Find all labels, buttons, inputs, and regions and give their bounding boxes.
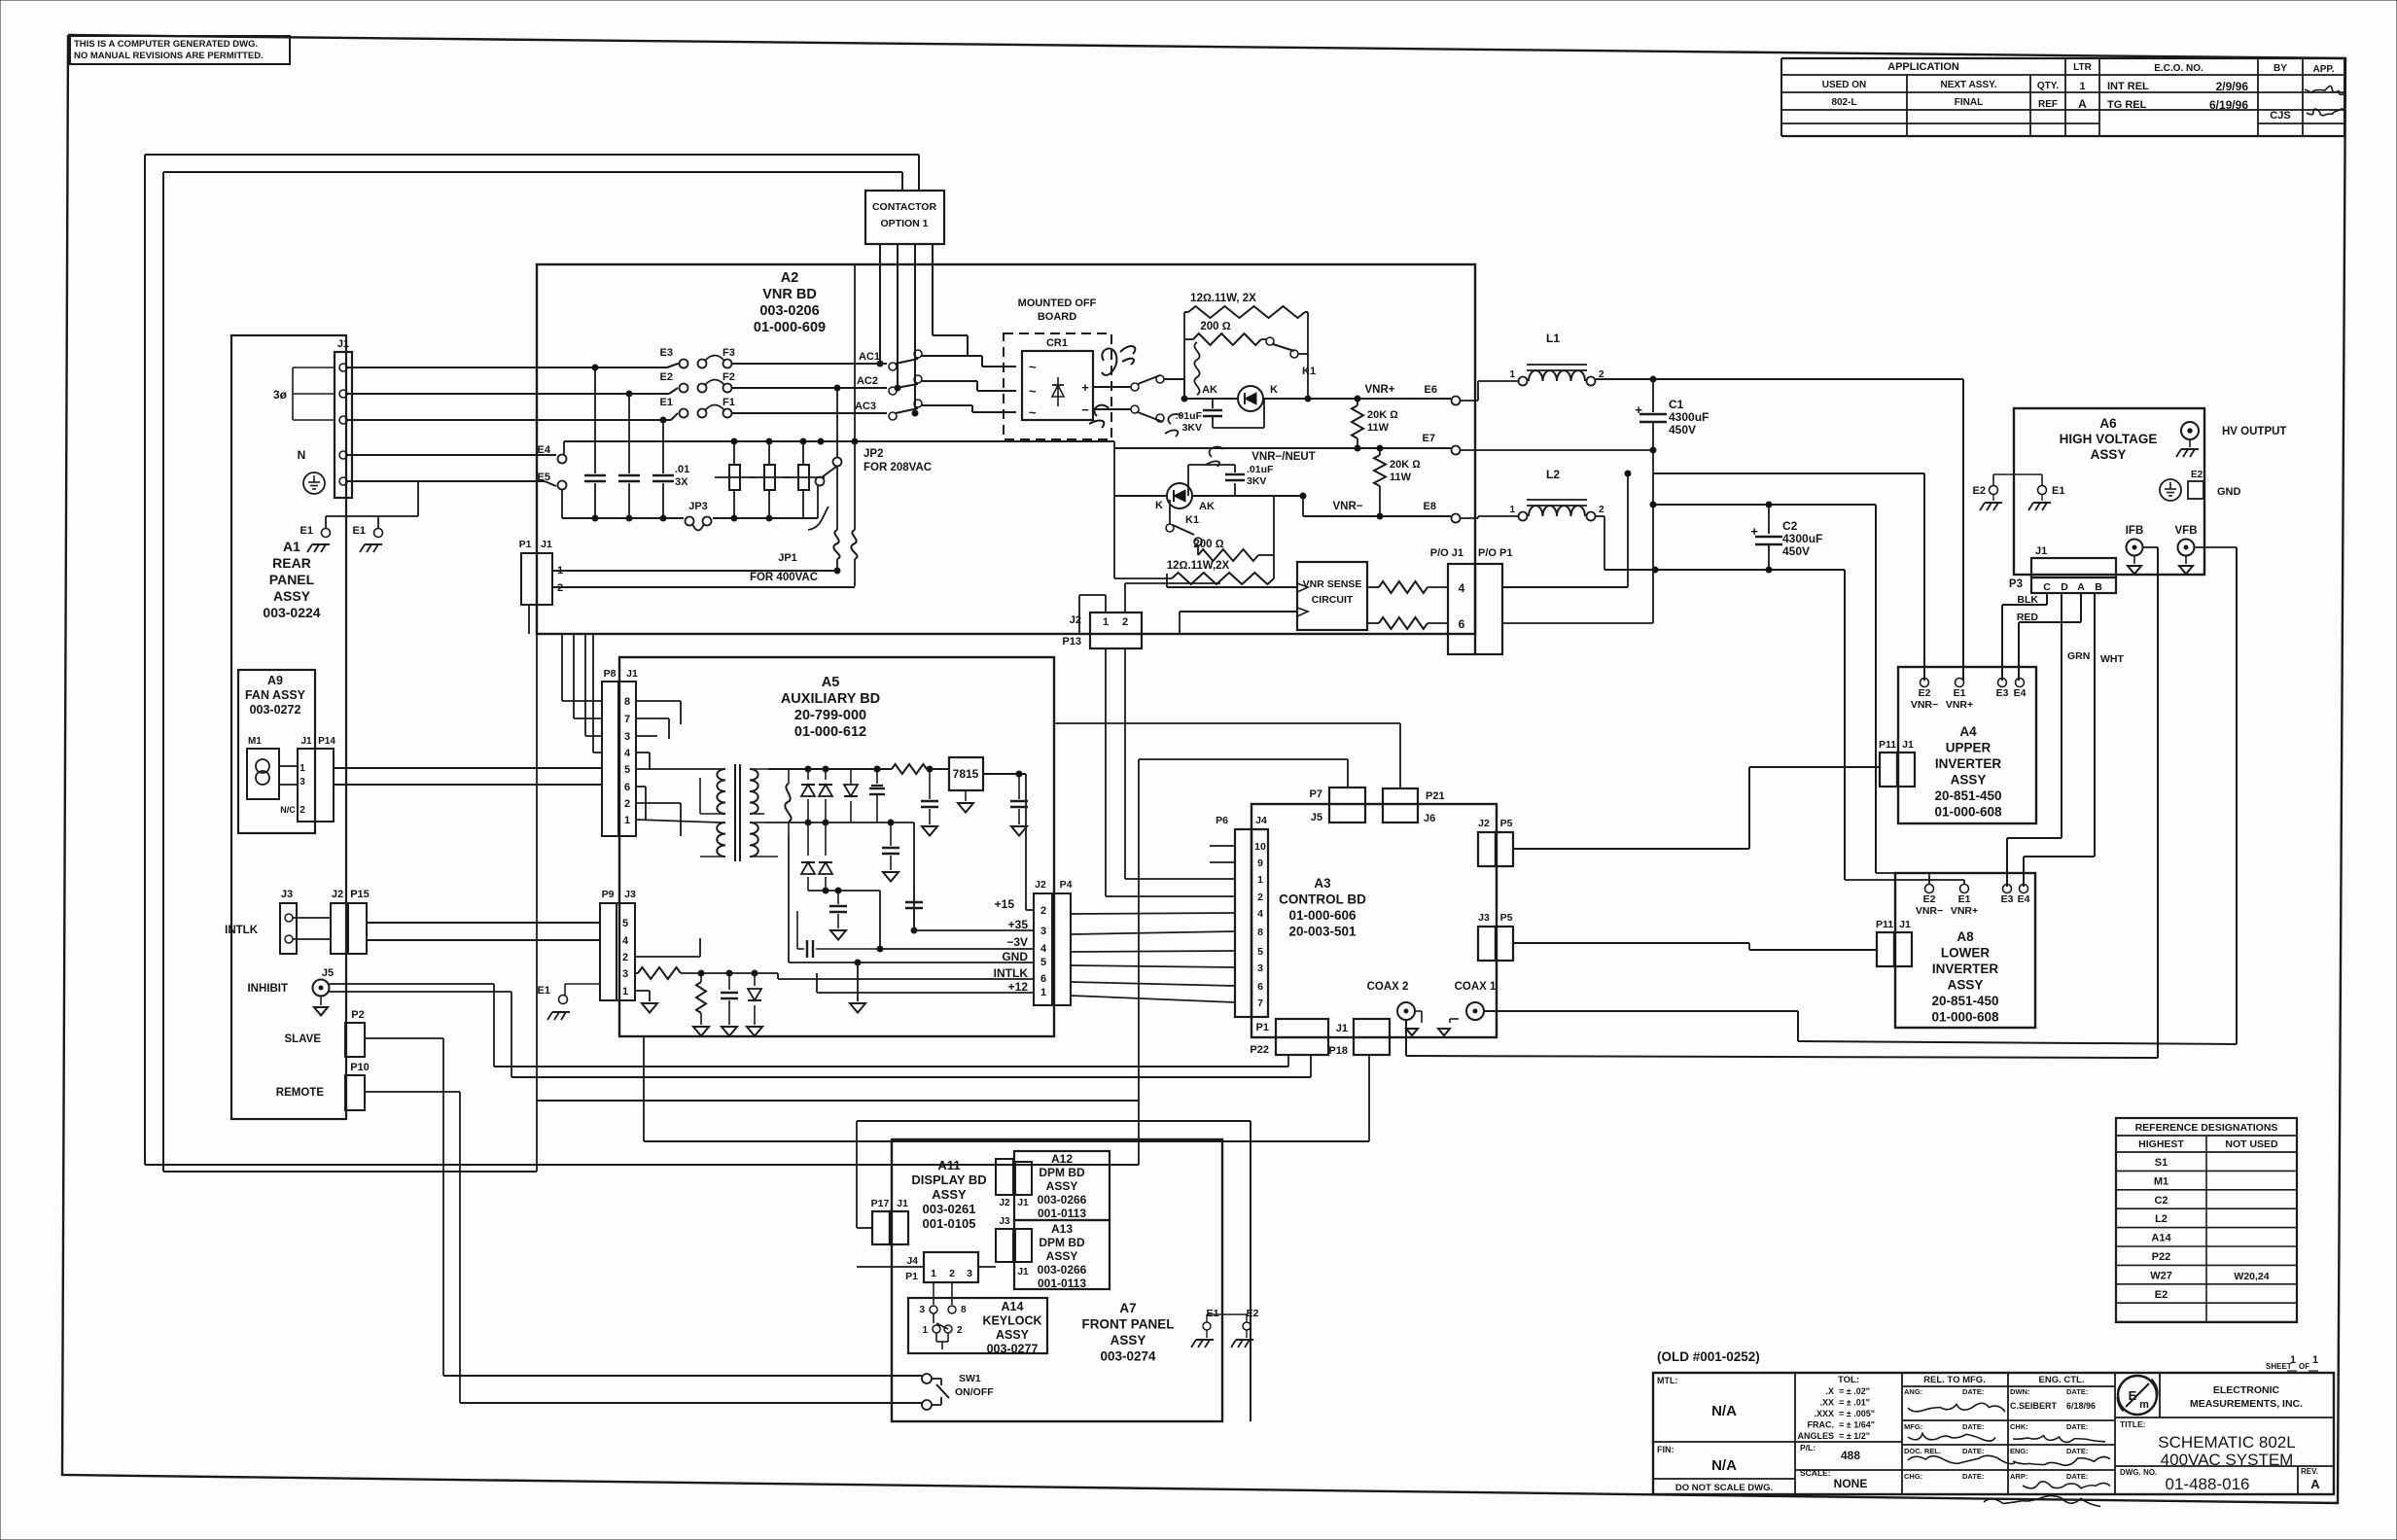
svg-text:J2: J2 (1035, 879, 1046, 891)
mounted off board dashed box (1004, 333, 1111, 439)
svg-text:11W: 11W (1390, 472, 1412, 483)
wire P22 down1 (1287, 1055, 1289, 1067)
wire CR1- to K contacts (1093, 408, 1131, 410)
svg-text:MEASUREMENTS, INC.: MEASUREMENTS, INC. (2190, 1398, 2303, 1410)
svg-text:3: 3 (300, 777, 305, 787)
svg-text:VNR+: VNR+ (1946, 699, 1973, 711)
svg-text:P1: P1 (519, 539, 532, 550)
svg-text:ELECTRONIC: ELECTRONIC (2213, 1384, 2280, 1396)
svg-text:5: 5 (1257, 946, 1263, 958)
connector J1/P14 (298, 749, 315, 822)
svg-text:ENG. CTL.: ENG. CTL. (2039, 1375, 2085, 1385)
svg-text:N/A: N/A (1711, 1403, 1737, 1419)
svg-text:P4: P4 (1060, 879, 1073, 891)
neutral rail lower (562, 517, 684, 519)
wire E6 to L1 (1461, 400, 1478, 402)
svg-text:P1: P1 (905, 1271, 918, 1282)
svg-text:L2: L2 (1546, 468, 1560, 481)
svg-text:THIS IS A COMPUTER GENERATED D: THIS IS A COMPUTER GENERATED DWG. (74, 39, 258, 50)
node line upper SCR (1184, 398, 1238, 400)
bus P4 to P6 (1071, 913, 1235, 914)
cap .01uF 3KV lower (1234, 483, 1236, 496)
svg-text:E1: E1 (538, 985, 550, 997)
svg-text:AC3: AC3 (855, 401, 876, 412)
svg-text:ANG:: ANG: (1904, 1387, 1922, 1396)
svg-text:DATE:: DATE: (1962, 1447, 1984, 1455)
svg-text:1: 1 (1257, 874, 1263, 886)
svg-text:6: 6 (1459, 617, 1465, 631)
svg-text:400VAC SYSTEM: 400VAC SYSTEM (2161, 1451, 2294, 1469)
filter cap 2 (628, 394, 630, 473)
svg-text:200 Ω: 200 Ω (1200, 321, 1230, 332)
svg-text:E2: E2 (2155, 1289, 2168, 1301)
switch K1 lower (1166, 524, 1174, 532)
A13 DPM box (1014, 1220, 1110, 1289)
rectifier diodes upper (768, 768, 851, 770)
svg-text:FIN:: FIN: (1657, 1445, 1674, 1454)
wire P21 up (1399, 723, 1401, 788)
svg-text:APP.: APP. (2312, 64, 2334, 75)
svg-text:QTY.: QTY. (2037, 81, 2059, 91)
svg-text:1: 1 (931, 1268, 936, 1279)
7815 output (983, 773, 1026, 775)
svg-text:C1: C1 (1669, 398, 1684, 411)
svg-text:DATE:: DATE: (1962, 1387, 1984, 1396)
svg-text:J4: J4 (906, 1255, 918, 1267)
svg-text:A: A (2078, 97, 2087, 111)
svg-text:2: 2 (624, 798, 630, 810)
svg-text:ASSY: ASSY (2091, 447, 2127, 462)
svg-text:K1: K1 (1302, 366, 1316, 377)
A7 front panel box (892, 1139, 1222, 1421)
wire N to E4 (347, 454, 556, 456)
fan motor M1 (247, 749, 279, 799)
svg-text:DATE:: DATE: (2066, 1472, 2088, 1481)
svg-text:4300uF: 4300uF (1782, 532, 1822, 545)
svg-text:3KV: 3KV (1182, 422, 1202, 434)
hcap -3v line (797, 948, 804, 950)
svg-text:2: 2 (949, 1268, 955, 1279)
J1 pins (339, 364, 347, 371)
svg-text:= ± 1/2": = ± 1/2" (1839, 1431, 1870, 1441)
svg-text:3: 3 (622, 968, 628, 980)
svg-text:2: 2 (1599, 505, 1604, 515)
svg-text:ASSY: ASSY (1951, 773, 1987, 787)
svg-text:003-0266: 003-0266 (1038, 1263, 1087, 1277)
svg-text:E1: E1 (300, 525, 313, 537)
svg-text:DO NOT SCALE DWG.: DO NOT SCALE DWG. (1675, 1483, 1773, 1493)
svg-text:E1: E1 (2052, 485, 2064, 497)
svg-text:DATE:: DATE: (2066, 1422, 2088, 1431)
cap gnd-35 (913, 888, 915, 900)
svg-text:A3: A3 (1314, 876, 1331, 891)
svg-text:8: 8 (961, 1305, 967, 1315)
svg-text:4: 4 (1040, 943, 1047, 955)
svg-text:W27: W27 (2150, 1270, 2172, 1281)
svg-text:J2: J2 (332, 889, 343, 900)
svg-text:INTLK: INTLK (225, 925, 259, 936)
svg-text:M1: M1 (2154, 1175, 2168, 1187)
svg-text:K: K (1270, 384, 1278, 396)
rectifier diodes lower (807, 822, 809, 856)
svg-text:A1: A1 (283, 539, 300, 554)
svg-text:J6: J6 (1424, 813, 1435, 824)
svg-text:VNR−: VNR− (1333, 501, 1363, 512)
svg-text:E1: E1 (353, 525, 366, 537)
A9 fan assy box (238, 670, 315, 833)
svg-text:.01uF: .01uF (1247, 464, 1274, 475)
wire loop left outer (145, 154, 919, 156)
7815 ground (965, 790, 967, 801)
svg-text:VNR+: VNR+ (1951, 905, 1978, 917)
svg-text:1: 1 (2290, 1354, 2296, 1366)
wire P13 mid down (1138, 759, 1140, 1165)
svg-text:3: 3 (1257, 962, 1263, 974)
svg-text:3: 3 (1040, 926, 1046, 937)
svg-text:OF: OF (2299, 1362, 2309, 1371)
svg-text:+15: +15 (995, 897, 1015, 911)
connector P21/J6 (1383, 788, 1418, 822)
svg-text:ASSY: ASSY (273, 588, 311, 604)
P8 feed wires (561, 634, 563, 701)
svg-text:J1: J1 (626, 668, 638, 680)
svg-text:HIGHEST: HIGHEST (2138, 1138, 2184, 1150)
svg-text:01-000-612: 01-000-612 (794, 724, 866, 740)
svg-text:.XXX: .XXX (1814, 1409, 1834, 1418)
cap to gnd (728, 973, 730, 990)
svg-text:3ø: 3ø (273, 388, 288, 402)
A8 terminals (1925, 885, 1934, 893)
P9 pin3 network (635, 972, 638, 974)
svg-text:NEXT ASSY.: NEXT ASSY. (1941, 80, 1997, 90)
svg-text:−: − (1081, 402, 1089, 417)
svg-text:J3: J3 (1478, 912, 1490, 924)
svg-text:AK: AK (1202, 384, 1217, 396)
svg-text:E2: E2 (660, 371, 673, 383)
svg-text:M1: M1 (248, 736, 262, 747)
wire -3V (851, 890, 880, 892)
svg-text:= ± .005": = ± .005" (1839, 1409, 1875, 1418)
wire INHIBIT 2 (329, 991, 511, 993)
wire CR1+ to K contacts (1093, 386, 1131, 388)
svg-text:12Ω.11W,2X: 12Ω.11W,2X (1167, 560, 1230, 572)
wire +12 A5 (817, 992, 1034, 994)
svg-text:LTR: LTR (2073, 62, 2092, 73)
zener A5 (850, 769, 852, 784)
svg-text:003-0266: 003-0266 (1038, 1193, 1087, 1207)
wire VNR rail mid (1652, 473, 1654, 505)
svg-text:J3: J3 (281, 889, 293, 900)
svg-text:N: N (298, 448, 306, 462)
connector P9/J3 (600, 903, 617, 1000)
svg-text:S1: S1 (2155, 1157, 2168, 1169)
svg-text:7: 7 (624, 714, 630, 725)
svg-text:P18: P18 (1328, 1045, 1348, 1057)
wire P13 pin1 down (1105, 648, 1107, 896)
wire keylock to A13 J1 (978, 1266, 996, 1268)
svg-text:P/O P1: P/O P1 (1478, 547, 1512, 559)
svg-text:RED: RED (2017, 612, 2039, 623)
svg-text:E2: E2 (1919, 687, 1931, 699)
zener to gnd (754, 973, 756, 986)
pen annotation C3 (1102, 349, 1116, 375)
svg-text:W20,24: W20,24 (2234, 1271, 2269, 1282)
svg-text:VFB: VFB (2175, 525, 2198, 537)
wire fan 1 (279, 765, 298, 767)
svg-text:A5: A5 (822, 675, 840, 690)
terminal E2 + fuse F2 (680, 384, 688, 393)
svg-text:REV.: REV. (2301, 1467, 2318, 1476)
connector P17/J1 (872, 1211, 890, 1244)
svg-text:J2: J2 (1478, 818, 1490, 829)
transformer T1 primary (717, 769, 725, 814)
svg-text:E2: E2 (1973, 485, 1986, 497)
wire INTLK A5 (777, 973, 779, 979)
svg-text:TG REL: TG REL (2107, 99, 2147, 111)
wire F1 to AC3 (732, 412, 887, 414)
neutral rail upper (564, 440, 1114, 442)
wire BLK (2046, 593, 2048, 605)
svg-text:.01: .01 (675, 464, 689, 475)
svg-text:INTLK: INTLK (994, 966, 1029, 980)
svg-text:P/L:: P/L: (1800, 1443, 1815, 1452)
svg-text:P14: P14 (318, 736, 335, 747)
A4 terminals (1921, 679, 1929, 687)
earth symbol A6 (2160, 479, 2181, 501)
svg-text:VNR−: VNR− (1916, 905, 1943, 917)
svg-text:E3: E3 (660, 347, 673, 359)
svg-text:AK: AK (1199, 501, 1215, 512)
A6 high voltage assy box (2014, 408, 2204, 575)
title block (1653, 1373, 2334, 1494)
connector J1 (A1) (335, 352, 352, 498)
svg-text:~: ~ (1029, 360, 1037, 374)
svg-text:ASSY: ASSY (1948, 978, 1984, 993)
wire PE to E5 (347, 480, 545, 482)
svg-text:DATE:: DATE: (2066, 1387, 2088, 1396)
wire E7 net right (1461, 449, 1653, 451)
wire SW1 upper (443, 1375, 922, 1377)
wire J1-3 to E1 fuse (347, 419, 671, 421)
svg-text:P11: P11 (1879, 739, 1896, 751)
svg-text:E2: E2 (1247, 1308, 1259, 1319)
svg-text:E5: E5 (538, 472, 550, 483)
svg-text:01-000-608: 01-000-608 (1934, 805, 2002, 820)
svg-text:J1: J1 (1336, 1023, 1348, 1034)
wire to AK line (1164, 378, 1184, 380)
svg-text:BY: BY (2274, 63, 2287, 74)
wire F2 to AC2 (732, 387, 887, 389)
svg-text:ASSY: ASSY (1046, 1179, 1078, 1193)
svg-text:ON/OFF: ON/OFF (955, 1386, 994, 1398)
svg-text:20-851-450: 20-851-450 (1931, 994, 1998, 1008)
wire INTLK to P9-5 (367, 922, 600, 924)
E1 chassis grounds below A1 J1 (417, 481, 419, 516)
svg-text:C2: C2 (2154, 1195, 2168, 1207)
wire AC3 to CR1 (922, 404, 972, 406)
contactor option box (865, 191, 944, 244)
transformer core (734, 764, 736, 861)
sense output res 1 (1367, 586, 1379, 588)
svg-text:= ± .01": = ± .01" (1839, 1398, 1870, 1408)
svg-text:A11: A11 (937, 1158, 960, 1172)
svg-text:20-851-450: 20-851-450 (1934, 788, 2001, 803)
svg-text:−3V: −3V (1006, 935, 1028, 949)
svg-text:4: 4 (624, 748, 631, 759)
svg-text:WHT: WHT (2100, 653, 2124, 665)
svg-text:J2: J2 (999, 1198, 1010, 1208)
svg-text:6/18/96: 6/18/96 (2066, 1401, 2096, 1411)
wire L2 out (1596, 515, 1604, 517)
svg-text:P13: P13 (1062, 636, 1081, 647)
svg-text:HIGH VOLTAGE: HIGH VOLTAGE (2060, 432, 2158, 446)
connector P6/J4 (1235, 829, 1251, 1017)
svg-text:F3: F3 (723, 347, 735, 359)
svg-text:20K Ω: 20K Ω (1367, 409, 1398, 421)
svg-text:CONTROL BD: CONTROL BD (1279, 892, 1366, 907)
svg-text:P1: P1 (1256, 1022, 1269, 1033)
svg-text:4300uF: 4300uF (1669, 410, 1709, 424)
regulator 7815 (949, 757, 983, 790)
cap mid a (890, 822, 892, 846)
svg-text:ASSY: ASSY (932, 1187, 967, 1202)
svg-text:003-0277: 003-0277 (987, 1343, 1039, 1356)
svg-text:1: 1 (1103, 616, 1109, 628)
svg-text:CR1: CR1 (1046, 337, 1068, 349)
MOV 2 (768, 441, 770, 465)
svg-text:DWG. NO.: DWG. NO. (2120, 1468, 2157, 1477)
svg-text:P7: P7 (1310, 788, 1322, 800)
svg-text:12Ω.11W, 2X: 12Ω.11W, 2X (1190, 293, 1256, 304)
svg-text:J1: J1 (2035, 545, 2047, 557)
svg-text:NOT USED: NOT USED (2225, 1138, 2278, 1150)
svg-text:1: 1 (624, 815, 630, 826)
svg-text:REFERENCE DESIGNATIONS: REFERENCE DESIGNATIONS (2135, 1122, 2278, 1134)
svg-text:E1: E1 (1954, 687, 1966, 699)
svg-text:001-0113: 001-0113 (1038, 1207, 1086, 1220)
svg-text:NO MANUAL REVISIONS ARE PERMIT: NO MANUAL REVISIONS ARE PERMITTED. (74, 51, 264, 61)
+15 rail (851, 768, 892, 770)
svg-text:802-L: 802-L (1831, 97, 1856, 108)
svg-text:P8: P8 (604, 668, 617, 680)
wire VNR- to E8 (1303, 515, 1451, 517)
svg-text:E1: E1 (1207, 1308, 1219, 1319)
svg-text:E4: E4 (2014, 687, 2027, 699)
svg-text:2: 2 (1122, 616, 1128, 628)
svg-text:1: 1 (922, 1325, 928, 1336)
connector J3 INTLK (280, 903, 297, 954)
svg-text:DPM BD: DPM BD (1039, 1166, 1085, 1179)
terminal E3 + fuse F3 (680, 360, 688, 368)
svg-text:SCHEMATIC 802L: SCHEMATIC 802L (2158, 1433, 2295, 1452)
svg-text:FOR 208VAC: FOR 208VAC (864, 462, 932, 473)
svg-text:SCALE:: SCALE: (1800, 1468, 1831, 1478)
res to gnd (700, 973, 702, 982)
filter cap 3 (662, 420, 664, 473)
transformer secondary (750, 769, 758, 814)
A12 DPM box (1014, 1151, 1110, 1220)
svg-text:P2: P2 (351, 1009, 364, 1021)
A4 upper inverter box (1898, 667, 2036, 823)
svg-text:8: 8 (624, 696, 630, 708)
svg-text:INT REL: INT REL (2107, 81, 2149, 92)
svg-text:J1: J1 (337, 338, 349, 350)
svg-text:AUXILIARY BD: AUXILIARY BD (781, 691, 880, 707)
svg-text:A14: A14 (2151, 1233, 2171, 1244)
svg-text:E1: E1 (660, 397, 673, 408)
svg-text:DISPLAY BD: DISPLAY BD (911, 1172, 986, 1187)
connector P11/J1 (A8) (1877, 932, 1894, 966)
svg-text:01-488-016: 01-488-016 (2166, 1475, 2250, 1493)
wire P14-3 to P8 (334, 784, 601, 786)
svg-text:2: 2 (1040, 905, 1046, 917)
svg-text:ASSY: ASSY (996, 1328, 1030, 1342)
wire AC1 to CR1 (922, 355, 982, 357)
svg-text:5: 5 (624, 764, 630, 776)
svg-text:003-0261: 003-0261 (923, 1202, 976, 1216)
svg-text:003-0272: 003-0272 (250, 703, 301, 717)
resistor 20K upper (1357, 399, 1358, 405)
wire +35 (851, 822, 914, 823)
svg-text:A7: A7 (1119, 1301, 1136, 1315)
wire INTLK to P9-4 (367, 939, 600, 941)
svg-text:P5: P5 (1500, 818, 1513, 829)
svg-text:SW1: SW1 (959, 1373, 981, 1384)
svg-text:GRN: GRN (2067, 650, 2090, 662)
wire J1-1 to E3 fuse (347, 367, 667, 368)
connector P11/J1 (A4) (1880, 752, 1897, 787)
svg-text:KEYLOCK: KEYLOCK (982, 1314, 1041, 1328)
svg-text:N/C: N/C (280, 805, 296, 815)
wire J2/P5 to A4 P11 (1513, 848, 1749, 850)
svg-text:K1: K1 (1185, 514, 1199, 526)
svg-text:ASSY: ASSY (1110, 1333, 1146, 1347)
svg-text:P/O J1: P/O J1 (1430, 547, 1463, 559)
svg-text:~: ~ (1029, 384, 1037, 399)
svg-text:P9: P9 (602, 889, 615, 900)
switch K upper (1131, 383, 1139, 391)
svg-text:A4: A4 (1959, 724, 1977, 739)
svg-text:P21: P21 (1426, 790, 1445, 802)
svg-text:LOWER: LOWER (1941, 946, 1990, 961)
svg-text:TITLE:: TITLE: (2120, 1419, 2146, 1429)
3-phase bracket (293, 367, 335, 368)
connector J2/P15 (331, 903, 348, 954)
svg-text:P11: P11 (1876, 919, 1893, 930)
ground hatch E1a (312, 543, 330, 545)
svg-text:A: A (2077, 581, 2085, 593)
svg-text:CHG:: CHG: (1904, 1472, 1922, 1481)
svg-text:INVERTER: INVERTER (1932, 962, 1999, 976)
svg-text:20K Ω: 20K Ω (1390, 459, 1421, 471)
svg-text:E.C.O. NO.: E.C.O. NO. (2154, 63, 2203, 74)
svg-text:USED ON: USED ON (1822, 80, 1867, 90)
wire P13 pin2 down (1124, 648, 1126, 879)
svg-text:ANGLES: ANGLES (1797, 1431, 1834, 1441)
svg-text:SHEET: SHEET (2266, 1362, 2292, 1371)
wire J1-2 to E2 fuse (347, 393, 669, 395)
switch K lower (1131, 405, 1139, 413)
svg-text:1: 1 (622, 986, 628, 997)
svg-text:1: 1 (300, 763, 305, 774)
svg-text:VNR SENSE: VNR SENSE (1303, 578, 1362, 590)
svg-text:CONTACTOR: CONTACTOR (872, 201, 937, 213)
svg-text:P5: P5 (1500, 912, 1513, 924)
svg-text:A14: A14 (1002, 1300, 1024, 1313)
svg-text:J1: J1 (1017, 1198, 1029, 1208)
svg-text:5: 5 (622, 918, 628, 929)
note box top-left (70, 36, 290, 64)
